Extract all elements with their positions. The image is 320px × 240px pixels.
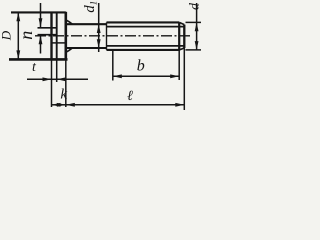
dimension l — [66, 103, 185, 107]
extension line from head left face — [51, 59, 53, 107]
shank outline — [66, 24, 107, 48]
svg-text:D: D — [0, 30, 14, 41]
dimension k — [52, 103, 66, 107]
dimension d1 — [97, 3, 101, 52]
extension line from screw end face — [183, 48, 185, 110]
svg-text:b: b — [137, 58, 145, 75]
dimension n — [39, 3, 43, 54]
wire center axis line — [35, 35, 192, 37]
thread runout line — [106, 22, 108, 50]
screw end face — [183, 25, 185, 48]
thread end line — [178, 22, 180, 50]
extension line from thread start — [112, 50, 114, 80]
svg-text:n: n — [16, 31, 36, 40]
head inner line — [52, 42, 66, 44]
slot bottom line — [56, 12, 58, 59]
dimension t — [27, 77, 88, 81]
extension line from head right face — [65, 59, 67, 107]
svg-text:ℓ: ℓ — [127, 89, 133, 104]
svg-text:k: k — [60, 86, 67, 102]
dimension D — [16, 12, 20, 59]
extension line from thread end — [178, 50, 180, 80]
svg-text:d: d — [187, 2, 202, 10]
under-head fillet top — [66, 20, 73, 24]
under-head fillet bottom — [66, 48, 73, 52]
slot edge upper — [38, 27, 57, 29]
dimension d — [195, 3, 199, 51]
end chamfer — [179, 22, 184, 50]
slot edge lower — [38, 34, 57, 36]
thread major diameter outline — [107, 22, 180, 50]
thread minor diameter lines — [107, 27, 185, 46]
dimension b — [113, 74, 179, 78]
extension lines for d — [186, 22, 202, 50]
screw head outline — [9, 12, 68, 60]
extension line from slot bottom — [56, 59, 58, 82]
